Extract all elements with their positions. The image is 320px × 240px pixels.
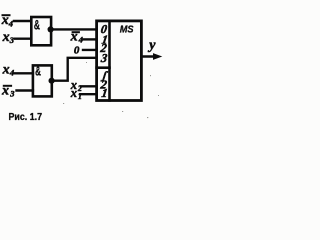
wire input x3 to D1	[15, 38, 31, 40]
svg-text:MS: MS	[120, 23, 134, 35]
scan speckles	[63, 62, 159, 118]
AND gate D1 (top)	[31, 17, 51, 45]
junction node at D2 output	[49, 78, 55, 84]
junction node at D1 output	[48, 26, 54, 32]
wire stub x4bar to MS input 1	[84, 38, 97, 40]
svg-text:0: 0	[74, 45, 80, 57]
svg-text:x: x	[2, 30, 10, 45]
arrowhead of output y	[153, 53, 162, 60]
svg-text:1: 1	[78, 92, 82, 101]
AND gate D2 (bottom)	[33, 65, 52, 96]
svg-text:4: 4	[9, 68, 14, 78]
wire input x3bar to D2	[17, 89, 33, 91]
svg-text:4: 4	[78, 34, 83, 44]
wire output y	[142, 55, 156, 57]
multiplexer MS divider vertical	[108, 21, 111, 101]
svg-text:y: y	[147, 38, 156, 53]
wire D1 output to MS input 0	[51, 28, 96, 30]
multiplexer MS outer box	[97, 21, 142, 101]
svg-text:4: 4	[8, 18, 13, 28]
svg-text:3: 3	[9, 88, 15, 98]
svg-text:x: x	[2, 63, 10, 78]
wire stub constant 0 to MS input 2	[83, 49, 96, 51]
svg-text:Рис. 1.7: Рис. 1.7	[9, 112, 43, 123]
svg-text:3: 3	[9, 35, 15, 45]
multiplexer MS divider horizontal	[97, 66, 110, 69]
svg-text:&: &	[35, 64, 41, 78]
wire input x4 to D2	[15, 72, 33, 74]
svg-text:x: x	[70, 86, 77, 100]
svg-text:&: &	[34, 18, 40, 32]
wire x2 to MS select 2	[81, 85, 96, 87]
wire D2 output to MS input 3	[52, 58, 96, 81]
wire x1 to MS select 1	[80, 93, 96, 95]
wire input x4bar to D1	[14, 20, 31, 22]
